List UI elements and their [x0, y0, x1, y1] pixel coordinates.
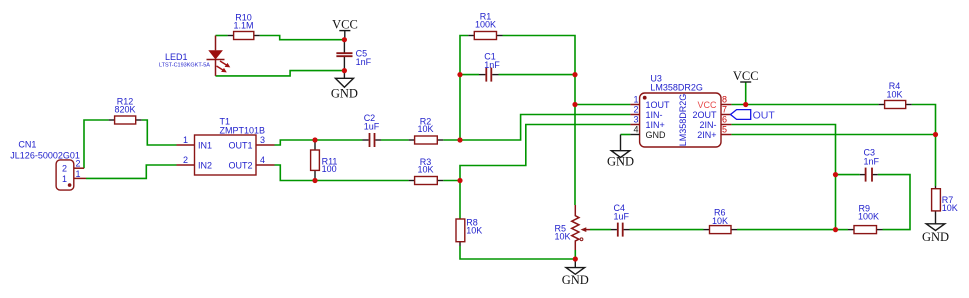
svg-text:8: 8: [722, 95, 727, 105]
svg-text:1uF: 1uF: [614, 212, 630, 222]
svg-text:ZMPT101B: ZMPT101B: [220, 126, 266, 136]
svg-text:100K: 100K: [858, 212, 879, 222]
svg-text:10K: 10K: [886, 90, 902, 100]
svg-text:1: 1: [633, 95, 638, 105]
svg-text:1: 1: [62, 174, 67, 184]
svg-text:JL126-50002G01: JL126-50002G01: [10, 151, 80, 161]
svg-text:1.1M: 1.1M: [233, 21, 253, 31]
svg-text:CN1: CN1: [18, 140, 36, 150]
svg-text:100: 100: [322, 164, 337, 174]
svg-text:1: 1: [76, 169, 81, 179]
svg-text:3: 3: [633, 115, 638, 125]
svg-text:2: 2: [183, 155, 188, 165]
svg-text:LED1: LED1: [165, 52, 188, 62]
svg-text:3: 3: [260, 135, 265, 145]
svg-text:VCC: VCC: [733, 69, 759, 83]
svg-text:4: 4: [633, 125, 638, 135]
svg-text:1OUT: 1OUT: [646, 100, 671, 110]
svg-text:IN2: IN2: [198, 161, 212, 171]
svg-text:820K: 820K: [114, 105, 135, 115]
svg-text:2: 2: [62, 164, 67, 174]
svg-text:7: 7: [722, 105, 727, 115]
svg-text:GND: GND: [331, 87, 358, 101]
svg-text:10K: 10K: [712, 216, 728, 226]
svg-text:2IN+: 2IN+: [697, 130, 716, 140]
svg-text:IN1: IN1: [198, 141, 212, 151]
svg-text:GND: GND: [607, 155, 634, 169]
svg-text:100K: 100K: [475, 20, 496, 30]
svg-text:2OUT: 2OUT: [692, 110, 717, 120]
svg-text:1uF: 1uF: [364, 122, 380, 132]
svg-text:10K: 10K: [942, 203, 958, 213]
svg-text:2IN-: 2IN-: [699, 120, 716, 130]
svg-text:OUT2: OUT2: [228, 161, 252, 171]
svg-text:GND: GND: [562, 273, 589, 287]
svg-text:4: 4: [260, 155, 265, 165]
svg-text:1IN-: 1IN-: [646, 110, 663, 120]
svg-text:1nF: 1nF: [864, 157, 880, 167]
svg-text:1: 1: [183, 135, 188, 145]
svg-text:OUT1: OUT1: [228, 141, 252, 151]
svg-text:1IN+: 1IN+: [646, 120, 665, 130]
svg-text:OUT: OUT: [753, 109, 776, 121]
svg-text:VCC: VCC: [332, 18, 358, 32]
svg-text:10K: 10K: [417, 164, 433, 174]
svg-text:5: 5: [722, 125, 727, 135]
svg-text:GND: GND: [922, 230, 949, 244]
svg-text:10K: 10K: [417, 124, 433, 134]
svg-text:1nF: 1nF: [356, 57, 372, 67]
svg-text:6: 6: [722, 115, 727, 125]
svg-text:2: 2: [633, 105, 638, 115]
svg-text:LM358DR2G: LM358DR2G: [650, 83, 703, 93]
svg-text:10K: 10K: [466, 226, 482, 236]
svg-text:LTST-C193KGKT-5A: LTST-C193KGKT-5A: [159, 63, 210, 69]
svg-text:GND: GND: [646, 130, 667, 140]
svg-text:VCC: VCC: [697, 100, 717, 110]
svg-text:10K: 10K: [555, 232, 571, 242]
svg-text:LM358DR2G: LM358DR2G: [678, 94, 688, 147]
svg-text:1nF: 1nF: [484, 60, 500, 70]
